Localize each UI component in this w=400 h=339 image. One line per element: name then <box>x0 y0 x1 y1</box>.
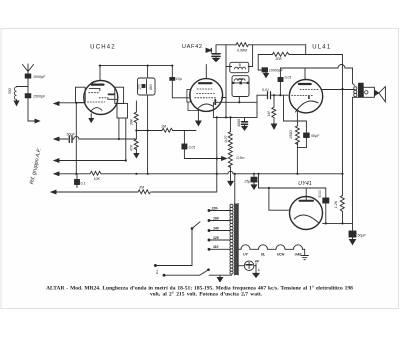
svg-text:0,01: 0,01 <box>285 76 292 80</box>
svg-text:0,01: 0,01 <box>189 146 196 150</box>
svg-text:1,2K: 1,2K <box>334 200 338 208</box>
svg-text:UY41: UY41 <box>298 181 312 187</box>
svg-text:L: L <box>258 268 260 272</box>
svg-text:30K: 30K <box>130 118 134 125</box>
svg-text:0,68M: 0,68M <box>237 49 247 53</box>
svg-text:1M: 1M <box>267 112 271 117</box>
svg-text:220-: 220- <box>211 206 220 210</box>
svg-text:170: 170 <box>138 84 142 90</box>
svg-text:UL41: UL41 <box>312 45 331 51</box>
svg-text:ALTAR - Mod. MR24. Lunghezza d: ALTAR - Mod. MR24. Lunghezza d’onda in m… <box>46 285 353 292</box>
svg-text:a.c.: a.c. <box>155 269 159 274</box>
svg-text:50μF: 50μF <box>311 134 320 138</box>
svg-text:10K: 10K <box>94 177 101 181</box>
svg-text:UCH: UCH <box>277 253 285 257</box>
svg-text:4V: 4V <box>254 259 260 263</box>
svg-text:140: 140 <box>213 226 219 230</box>
svg-text:4000: 4000 <box>237 119 241 127</box>
svg-text:UAF: UAF <box>295 253 303 257</box>
svg-text:5000: 5000 <box>318 190 322 198</box>
svg-text:25μ: 25μ <box>243 180 250 184</box>
svg-text:150Ω: 150Ω <box>289 130 293 139</box>
svg-text:50pF: 50pF <box>67 133 76 137</box>
svg-text:0,27: 0,27 <box>224 135 228 143</box>
svg-text:50μF: 50μF <box>358 234 367 238</box>
svg-text:110: 110 <box>213 245 219 249</box>
svg-text:UY: UY <box>243 253 248 257</box>
svg-text:3M: 3M <box>139 186 144 190</box>
svg-text:1500pF: 1500pF <box>33 95 46 99</box>
svg-text:UL: UL <box>261 253 266 257</box>
svg-text:905: 905 <box>238 77 243 81</box>
svg-text:50K: 50K <box>276 57 283 61</box>
svg-text:UCH42: UCH42 <box>90 45 116 51</box>
svg-text:125: 125 <box>213 236 219 240</box>
svg-text:volt, al 2° 215 volt. Potenza: volt, al 2° 215 volt. Potenza d’uscita 2… <box>150 291 263 298</box>
svg-text:160: 160 <box>213 216 219 220</box>
svg-text:10000pF: 10000pF <box>269 69 284 73</box>
svg-text:1M: 1M <box>161 125 166 129</box>
svg-text:0,01: 0,01 <box>262 88 269 92</box>
svg-text:47K: 47K <box>130 144 134 151</box>
svg-text:UAF42: UAF42 <box>182 44 203 50</box>
svg-text:10μ: 10μ <box>176 77 182 81</box>
svg-text:660: 660 <box>149 84 153 90</box>
svg-text:50Ω: 50Ω <box>8 87 12 94</box>
svg-text:0,1: 0,1 <box>81 182 86 186</box>
svg-text:1000pF: 1000pF <box>33 75 46 79</box>
svg-text:0,5m: 0,5m <box>237 156 245 160</box>
